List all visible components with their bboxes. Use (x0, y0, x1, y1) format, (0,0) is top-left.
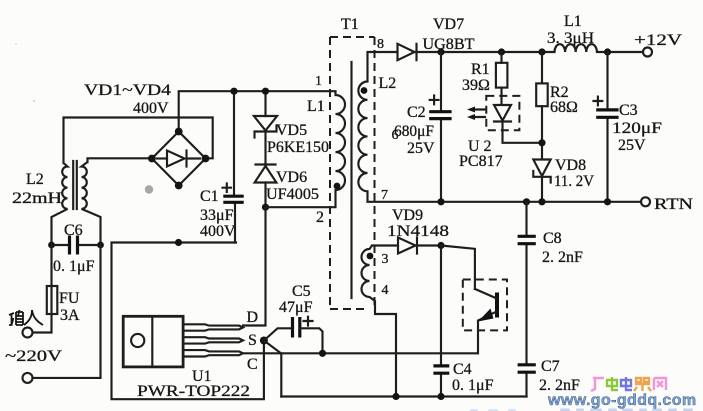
diode VD7 UG8BT (398, 44, 415, 60)
svg-text:L1: L1 (564, 13, 582, 30)
node C4 bottom (437, 393, 444, 400)
wire pin2 (266, 190, 336, 207)
bridge rectifier VD1~VD4 (152, 132, 206, 186)
terminal input bottom (23, 373, 33, 383)
wire top rail primary (bridge+ to pin1) (179, 91, 336, 132)
svg-text:C2: C2 (407, 104, 426, 121)
svg-text:VD5: VD5 (276, 122, 307, 139)
node bridge right (202, 155, 210, 163)
core bars of L2 (73, 161, 77, 209)
node bridge bottom (175, 182, 183, 190)
node R2 top (538, 48, 545, 55)
fuse FU (33, 245, 52, 333)
plus mark C1 (223, 184, 232, 192)
node pin4 bottom (392, 393, 399, 400)
node R1 top (498, 48, 505, 55)
svg-text:PC817: PC817 (459, 153, 503, 170)
winding L2 secondary (pins 8-7) (358, 52, 367, 202)
wire bottom terminal to C6 right (33, 245, 101, 378)
pin D prong (183, 324, 243, 330)
svg-text:VD9: VD9 (392, 207, 423, 224)
U1 enclosure box top edge wire (112, 243, 264, 400)
capacitor C6 (52, 244, 101, 246)
bottom edge watermark artifact (470, 409, 693, 411)
LED of U2 (494, 105, 511, 121)
node C5 bottom on control line (319, 350, 326, 357)
svg-text:L1: L1 (307, 98, 325, 115)
svg-text:25V: 25V (407, 140, 435, 157)
wire secondary top rail (440, 51, 643, 53)
svg-text:VD6: VD6 (276, 169, 307, 186)
svg-text:0. 1μF: 0. 1μF (452, 377, 494, 394)
svg-text:C7: C7 (541, 358, 560, 375)
svg-text:T1: T1 (341, 16, 359, 33)
svg-text:8: 8 (377, 37, 384, 52)
node C6 right (97, 242, 104, 249)
diode VD9 1N4148 (398, 238, 416, 254)
inductor L2 common-mode choke left winding (52, 163, 68, 245)
wire bottom ground rail right part (281, 395, 526, 397)
node phase dot secondary (361, 87, 368, 94)
watermark logo characters (547, 377, 697, 409)
svg-text:UG8BT: UG8BT (423, 36, 475, 53)
optocoupler U2 phototransistor dashed box (463, 280, 507, 331)
svg-text:47μF: 47μF (279, 299, 313, 316)
svg-text:VD8: VD8 (555, 157, 586, 174)
svg-text:680μF: 680μF (394, 123, 434, 140)
terminal input top (23, 328, 33, 338)
wire bridge AC1 to L2 right winding (88, 158, 153, 162)
wire pin2 junction down to drain corner (243, 207, 266, 325)
svg-text:C4: C4 (453, 361, 472, 378)
capacitor C8 2.2nF (525, 202, 527, 364)
svg-text:S: S (248, 332, 257, 349)
transformer core (350, 62, 352, 298)
light arrows (472, 110, 485, 118)
svg-text:UF4005: UF4005 (266, 186, 319, 203)
transformer T1 dashed box (330, 37, 375, 309)
node S pin (260, 337, 268, 345)
node phase dot feedback (367, 253, 374, 260)
resistor R1 39ohm (500, 52, 502, 104)
svg-text:www.go-gddq.com: www.go-gddq.com (547, 392, 697, 409)
node C6 left (48, 242, 55, 249)
node bridge top (175, 128, 183, 136)
node bridge minus on box edge (175, 239, 182, 246)
svg-text:22mH: 22mH (12, 190, 63, 207)
svg-text:33μF: 33μF (200, 207, 234, 224)
node C2 top (437, 48, 444, 55)
wire pin8 to VD7 (368, 51, 398, 53)
capacitor C3 120uF (606, 52, 608, 202)
node C3 bottom (604, 198, 611, 205)
svg-text:68Ω: 68Ω (550, 99, 578, 116)
svg-text:+12V: +12V (634, 32, 683, 49)
svg-text:C1: C1 (200, 188, 219, 205)
phototransistor bar (495, 293, 499, 318)
capacitor C1 (bulk electrolytic) (234, 91, 235, 242)
svg-text:C: C (247, 356, 258, 373)
wire LED cathode to R2/VD8 node (503, 130, 543, 143)
wire S to ground rail diagonal (264, 341, 281, 397)
optocoupler U2 LED dashed box (486, 96, 519, 130)
terminal +12V (643, 48, 652, 57)
svg-text:400V: 400V (133, 100, 169, 117)
node clamp top on rail (262, 88, 269, 95)
inductor L1 output choke 3.3uH (555, 44, 597, 52)
wire clamp vertical VD5/VD6 (264, 91, 266, 207)
terminal RTN (641, 197, 650, 206)
node pin2 junction (262, 204, 269, 211)
svg-text:4: 4 (382, 283, 389, 298)
svg-text:FU: FU (59, 290, 80, 307)
svg-text:2: 2 (316, 209, 324, 226)
node C2 bottom (437, 198, 444, 205)
plus mark C2 (430, 96, 439, 105)
svg-text:3: 3 (382, 252, 389, 267)
svg-text:RTN: RTN (654, 196, 694, 213)
svg-text:0. 1μF: 0. 1μF (53, 258, 95, 275)
pin S prong (183, 337, 243, 343)
svg-text:R1: R1 (471, 61, 490, 78)
plus mark C3 (594, 97, 603, 106)
wire control line C (243, 352, 478, 354)
svg-text:L2: L2 (379, 75, 397, 92)
node C1 top on rail (230, 88, 237, 95)
svg-text:1N4148: 1N4148 (387, 223, 449, 240)
svg-text:VD1~VD4: VD1~VD4 (84, 82, 171, 99)
node phase dot primary (334, 183, 341, 190)
svg-text:PWR-TOP222: PWR-TOP222 (137, 383, 250, 400)
label shuru (input) glyphs (9, 310, 43, 325)
node VD8 bottom (538, 198, 545, 205)
wire pin3 to VD9 (372, 244, 398, 246)
svg-text:C8: C8 (543, 230, 562, 247)
transistor U1 TO-220 body (123, 316, 183, 367)
scan smudge (145, 185, 153, 193)
capacitor C2 680uF (440, 52, 442, 202)
wire S to C5 diagonal (264, 328, 292, 340)
wire RTN rail (368, 201, 642, 203)
capacitor C4 0.1uF (440, 246, 442, 397)
svg-text:L2: L2 (26, 171, 44, 188)
diode VD8 zener 11.2V (533, 160, 550, 177)
svg-text:120μF: 120μF (612, 120, 662, 137)
node R2/VD8/LED junction (538, 139, 545, 146)
emitter with arrow (475, 289, 497, 353)
svg-text:11. 2V: 11. 2V (554, 173, 594, 190)
node C8 top (523, 198, 530, 205)
svg-text:~220V: ~220V (5, 348, 63, 365)
svg-text:C6: C6 (64, 222, 83, 239)
svg-text:1: 1 (315, 74, 322, 89)
svg-text:D: D (247, 309, 259, 326)
node C3 top (604, 48, 611, 55)
svg-text:3A: 3A (60, 307, 80, 324)
inductor L2 right winding (82, 162, 101, 245)
winding L1 primary (pins 1-2) (336, 91, 346, 190)
plus mark C5 (304, 317, 313, 326)
svg-text:2. 2nF: 2. 2nF (542, 249, 583, 266)
diode VD6 UF4005 (up) (255, 166, 277, 183)
pin C prong (183, 350, 243, 356)
winding feedback (pins 3-4) (362, 246, 397, 397)
svg-text:3. 3μH: 3. 3μH (547, 30, 594, 47)
node VD9 cathode junction (437, 242, 444, 249)
node bridge left (148, 155, 156, 163)
svg-text:400V: 400V (200, 223, 236, 240)
capacitor C5 47uF (293, 317, 300, 338)
svg-text:39Ω: 39Ω (462, 77, 490, 94)
capacitor C7 2.2nF (525, 373, 527, 397)
svg-text:C3: C3 (619, 102, 638, 119)
resistor R2 68ohm (541, 52, 543, 159)
wire VD9 node to opto collector (441, 246, 475, 289)
diode VD5 P6KE150 (transil, down) (254, 116, 277, 131)
wire AC line upper (L2 left winding to bridge AC2) (64, 118, 213, 164)
svg-text:P6KE150: P6KE150 (267, 139, 329, 156)
svg-text:VD7: VD7 (433, 16, 464, 33)
svg-text:C5: C5 (292, 283, 311, 300)
svg-text:25V: 25V (618, 137, 646, 154)
